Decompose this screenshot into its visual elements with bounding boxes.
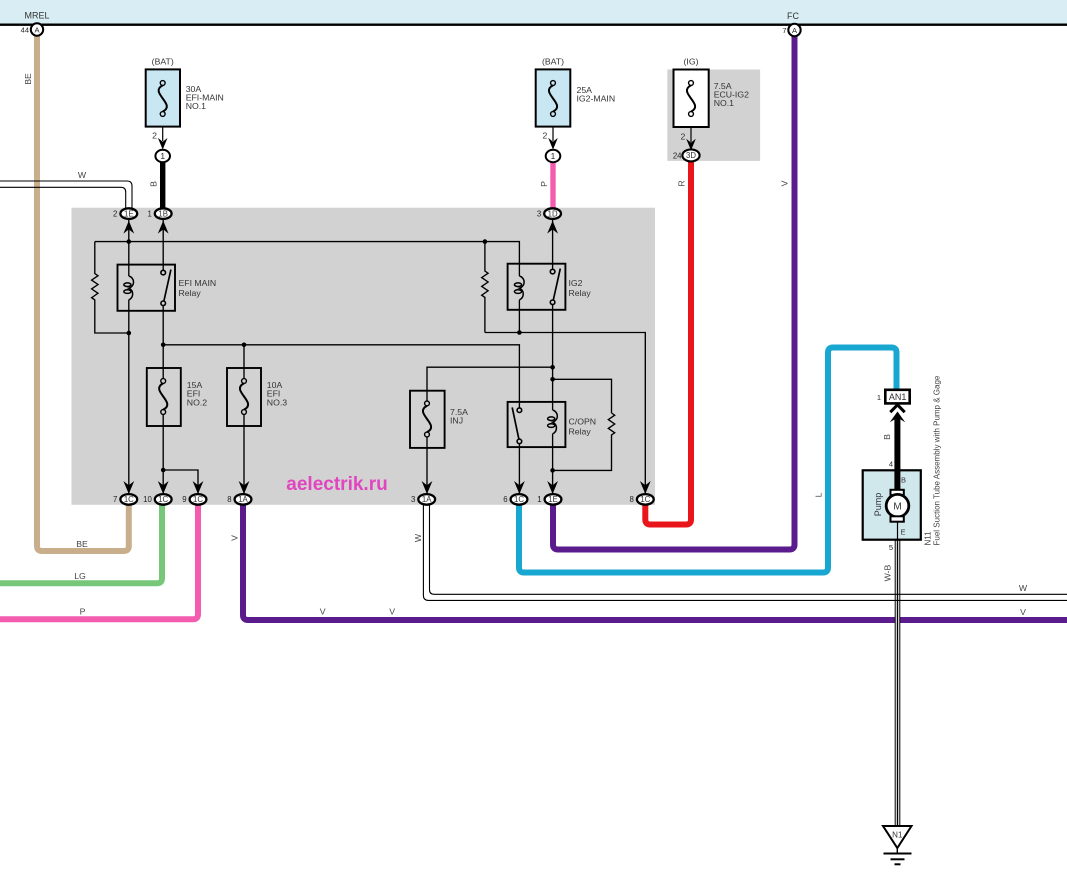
svg-text:N1: N1 — [892, 831, 903, 840]
svg-text:1: 1 — [147, 209, 151, 218]
fuse symbol 10A — [242, 379, 247, 384]
bus EFI switch out — [163, 345, 519, 408]
fuse symbol 15A — [161, 379, 166, 384]
wire B (black) AN1 to pump — [894, 417, 900, 490]
wire C/OPN switch to pin 6 1C — [518, 444, 520, 494]
svg-text:M: M — [893, 502, 901, 513]
fuse box 7.5A INJ — [410, 391, 445, 448]
motor brush bottom — [891, 516, 904, 521]
svg-text:V: V — [320, 607, 326, 617]
connector oval 7 1C — [120, 494, 137, 505]
svg-text:2: 2 — [152, 131, 157, 141]
svg-text:44: 44 — [21, 25, 29, 34]
svg-text:Relay: Relay — [569, 427, 592, 437]
bus to C/OPN resistor — [553, 379, 612, 413]
wire BE (tan) MREL A to pin 7 1C — [37, 36, 129, 552]
coil C/OPN relay — [553, 410, 558, 434]
connector oval 2 1E — [120, 208, 137, 219]
connector oval 1 1B — [155, 208, 172, 219]
wire branch to pin 9 1C — [163, 470, 198, 494]
resistor R-C/OPN — [553, 413, 615, 470]
resistor R-EFI (left) — [92, 242, 129, 333]
svg-text:L: L — [814, 492, 824, 497]
connector oval 3 1D — [544, 208, 561, 219]
wire 10A fuse feed — [243, 345, 245, 379]
svg-text:P: P — [80, 607, 86, 617]
connector oval 3 1A — [418, 494, 435, 505]
svg-text:1C: 1C — [193, 495, 203, 504]
svg-text:1C: 1C — [158, 495, 168, 504]
svg-text:R: R — [677, 180, 687, 186]
svg-text:V: V — [780, 180, 790, 186]
svg-text:A: A — [34, 25, 39, 34]
svg-text:MREL: MREL — [24, 11, 49, 21]
switch EFI MAIN relay — [162, 220, 164, 271]
relay block panel — [72, 208, 656, 505]
arrow down pin 8 1A — [239, 481, 250, 494]
connector circle A (MREL) — [31, 23, 43, 35]
svg-text:2: 2 — [680, 132, 685, 142]
svg-text:EFI MAIN: EFI MAIN — [179, 278, 217, 288]
wire L (blue) pin 6 1C to connector AN1 — [519, 348, 897, 573]
arrow fuse F3 out — [686, 139, 696, 151]
svg-text:N11: N11 — [924, 531, 933, 546]
svg-text:B: B — [901, 476, 906, 485]
wire motor to pump pin 5 — [897, 519, 899, 541]
connector oval 24 3D — [682, 149, 699, 161]
svg-text:BE: BE — [76, 539, 88, 549]
relay box IG2 — [508, 264, 566, 310]
svg-text:24: 24 — [673, 151, 682, 160]
svg-text:1E: 1E — [124, 209, 134, 218]
arrow down pin 10 1C — [158, 481, 169, 494]
svg-text:2: 2 — [113, 209, 117, 218]
fuel pump box N11 — [863, 470, 921, 539]
node 10A feed — [242, 343, 247, 348]
node resistor EFI bottom — [127, 331, 132, 336]
connector box AN1 — [885, 390, 909, 404]
svg-text:B: B — [882, 434, 892, 440]
header rule — [0, 24, 1067, 26]
svg-text:V: V — [389, 607, 395, 617]
resistor R-IG2 — [482, 242, 488, 333]
wire V (violet) pin 8 1A to right edge — [243, 505, 1067, 620]
connector oval 1 1E — [545, 494, 562, 505]
svg-text:Relay: Relay — [179, 288, 202, 298]
arrow up pin 3 1D — [547, 221, 558, 234]
svg-text:Fuel Suction Tube Assembly wit: Fuel Suction Tube Assembly with Pump & G… — [933, 375, 942, 545]
svg-text:5: 5 — [889, 543, 893, 552]
arrow down pin 1 1E — [547, 481, 558, 494]
connector oval 10 1C — [155, 494, 172, 505]
wire R (red) fuse 3D to pin 8 1C — [645, 161, 691, 525]
header band — [0, 0, 1067, 24]
node C/OPN resistor feed — [550, 377, 555, 382]
arrow down pin 3 1A — [422, 481, 433, 494]
svg-text:C/OPN: C/OPN — [569, 417, 597, 427]
wire P (pink) pin 9 1C to left edge — [0, 505, 198, 619]
svg-text:8: 8 — [227, 495, 231, 504]
motor M circle — [886, 494, 909, 517]
svg-text:(IG): (IG) — [684, 57, 699, 67]
svg-text:1E: 1E — [548, 495, 558, 504]
svg-text:V: V — [1020, 607, 1026, 617]
wire W-B (white-black) pump to ground N1 — [897, 521, 899, 540]
svg-text:1: 1 — [537, 495, 541, 504]
bus IG2 coil out to pin 8 1C — [485, 333, 645, 494]
svg-text:1C: 1C — [124, 495, 134, 504]
svg-text:3D: 3D — [686, 151, 696, 160]
motor brush top — [891, 490, 904, 495]
connector oval 9 1C — [190, 494, 207, 505]
arrow up pin 2 1E — [123, 221, 134, 234]
svg-text:AN1: AN1 — [889, 392, 907, 402]
svg-text:IG2: IG2 — [569, 278, 583, 288]
fuse F1 30A EFI-MAIN NO.1 — [146, 69, 180, 126]
svg-text:IG2-MAIN: IG2-MAIN — [577, 94, 616, 104]
connector oval 8 1C — [637, 494, 654, 505]
node C/OPN coil bottom — [550, 468, 555, 473]
arrow fuse F2 out — [548, 138, 558, 150]
arrow up pin 1 1B — [158, 221, 169, 234]
svg-text:W: W — [413, 533, 423, 542]
svg-text:1D: 1D — [548, 209, 558, 218]
arrow down pin 7 1C — [123, 481, 134, 494]
connector oval 6 1C — [511, 494, 528, 505]
connector circle 1 (F2) — [546, 150, 561, 162]
wire B (black) fuse 30A to pin 1 1B — [160, 162, 165, 209]
wire MREL coil feed 1E down — [128, 220, 130, 277]
svg-text:8: 8 — [630, 495, 634, 504]
svg-text:B: B — [149, 181, 159, 187]
svg-text:Relay: Relay — [569, 288, 592, 298]
svg-text:FC: FC — [787, 11, 799, 21]
switch C/OPN relay — [517, 408, 522, 413]
wire W (white) pin 3 1A to right edge — [423, 505, 1067, 600]
wire 15A fuse to pin 10 1C — [162, 414, 164, 493]
bus to INJ fuse — [427, 367, 553, 401]
wire LG (light green) pin 10 1C to left edge — [0, 505, 162, 583]
arrow down pin 8 1C — [640, 481, 651, 494]
node 15A out branch — [161, 468, 166, 473]
svg-text:INJ: INJ — [450, 416, 463, 426]
svg-text:(BAT): (BAT) — [542, 57, 564, 67]
fuse F3 7.5A ECU-IG2 NO.1 — [674, 70, 709, 128]
svg-text:W: W — [1019, 583, 1028, 593]
relay box C/OPN — [508, 402, 566, 447]
svg-text:2: 2 — [542, 131, 547, 141]
svg-text:NO.1: NO.1 — [714, 98, 734, 108]
ECU-IG2 fuse panel — [667, 70, 760, 161]
connector circle A (FC) — [788, 24, 800, 36]
svg-text:P: P — [539, 181, 549, 187]
svg-text:10: 10 — [143, 495, 152, 504]
wire IG2 switch down to C/OPN coil — [552, 305, 554, 410]
svg-text:A: A — [792, 26, 797, 35]
node coil bus / 1E — [127, 239, 132, 244]
svg-text:W: W — [78, 170, 87, 180]
arrow fuse F1 out — [158, 138, 168, 150]
wire IG2 coil to bus — [518, 300, 520, 333]
connector oval 8 1A — [235, 494, 252, 505]
fuse box 10A EFI NO.3 — [227, 368, 261, 426]
node resistor IG2 top — [483, 239, 488, 244]
wire P (pink) fuse 25A to pin 3 1D — [550, 162, 555, 209]
wire B inside pump to motor — [894, 470, 900, 491]
svg-text:9: 9 — [182, 495, 186, 504]
svg-text:BE: BE — [23, 73, 33, 85]
wire switch to 15A fuse — [162, 306, 164, 379]
svg-text:NO.2: NO.2 — [187, 397, 207, 407]
wire V (violet) FC A to pin 1 1E — [553, 36, 795, 550]
svg-text:V: V — [230, 535, 240, 541]
svg-text:E: E — [901, 528, 906, 537]
svg-text:NO.3: NO.3 — [267, 397, 287, 407]
switch IG2 relay — [552, 220, 554, 270]
svg-text:7: 7 — [782, 26, 786, 35]
arrow head B wire — [890, 412, 905, 423]
svg-text:6: 6 — [503, 495, 507, 504]
svg-text:W-B: W-B — [883, 564, 893, 581]
svg-text:1: 1 — [551, 152, 556, 161]
coil IG2 relay — [519, 276, 524, 300]
wire coil to pin 7 1C — [128, 300, 130, 494]
svg-text:1B: 1B — [158, 209, 168, 218]
svg-text:1C: 1C — [640, 495, 650, 504]
connector circle 1 (F1) — [155, 150, 170, 162]
arrow chevrons below AN1 — [890, 405, 904, 412]
node INJ feed — [550, 365, 555, 370]
arrow down pin 9 1C — [193, 481, 204, 494]
fuse F2 25A IG2-MAIN — [536, 69, 571, 126]
svg-text:1A: 1A — [422, 495, 432, 504]
wire INJ fuse to pin 3 1A — [426, 437, 428, 494]
svg-text:3: 3 — [537, 209, 541, 218]
node EFI switch out — [161, 343, 166, 348]
svg-text:1A: 1A — [238, 495, 248, 504]
relay box EFI MAIN — [118, 265, 176, 311]
coil EFI MAIN relay — [129, 276, 134, 300]
svg-text:aelectrik.ru: aelectrik.ru — [286, 474, 387, 495]
fuse symbol 7.5A INJ — [425, 401, 430, 406]
svg-text:1: 1 — [160, 152, 165, 161]
svg-text:(BAT): (BAT) — [152, 57, 174, 67]
node IG2 coil bottom — [517, 330, 522, 335]
svg-text:3: 3 — [411, 495, 415, 504]
svg-text:1C: 1C — [514, 495, 524, 504]
svg-text:NO.1: NO.1 — [186, 101, 206, 111]
svg-text:LG: LG — [74, 571, 86, 581]
wire 10A fuse to pin 8 1A — [243, 414, 245, 493]
junction dots — [127, 239, 555, 472]
svg-text:1: 1 — [877, 393, 881, 402]
wire top bus to IG2 coil — [95, 242, 520, 276]
svg-text:4: 4 — [889, 459, 893, 468]
wire W (white) left edge to pin 2 1E — [0, 181, 132, 209]
svg-text:Pump: Pump — [873, 493, 883, 517]
svg-text:7: 7 — [113, 495, 117, 504]
wire C/OPN coil to pin 1 1E — [552, 434, 554, 494]
ground N1 — [883, 826, 912, 848]
fuse box 15A EFI NO.2 — [147, 368, 181, 426]
arrow down pin 6 1C — [514, 481, 525, 494]
